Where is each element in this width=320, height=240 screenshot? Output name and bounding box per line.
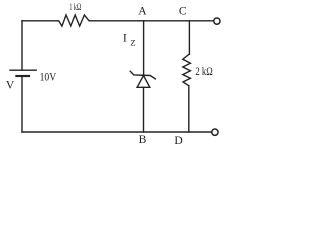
svg-text:10V: 10V <box>40 71 57 83</box>
svg-text:A: A <box>138 4 147 17</box>
svg-text:I: I <box>123 31 127 45</box>
svg-text:V: V <box>6 78 15 91</box>
svg-text:C: C <box>179 5 187 18</box>
svg-text:1 kΩ: 1 kΩ <box>69 2 81 13</box>
svg-text:Z: Z <box>130 38 135 48</box>
svg-text:2 kΩ: 2 kΩ <box>195 66 212 78</box>
svg-text:D: D <box>174 134 182 147</box>
svg-text:B: B <box>139 133 147 146</box>
